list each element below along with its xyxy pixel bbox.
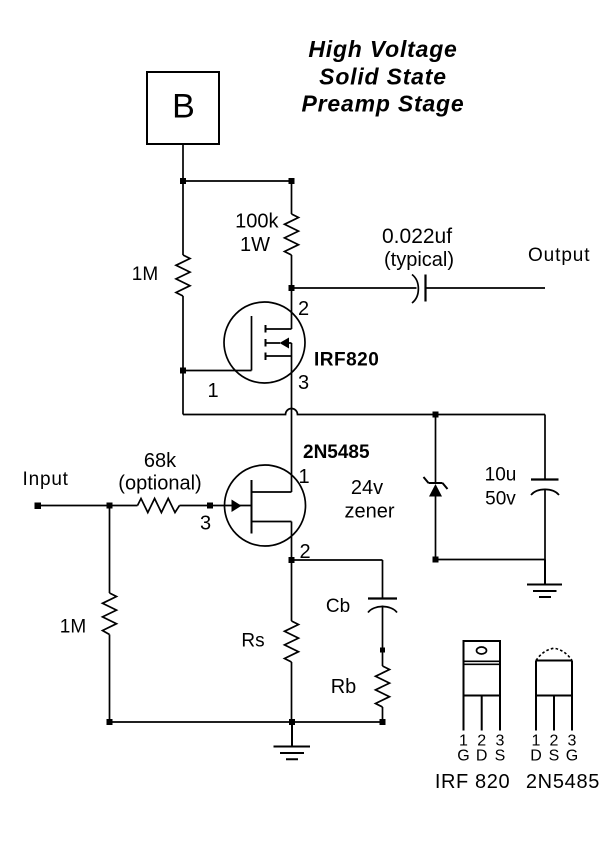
wire top rail horizontal	[183, 180, 292, 182]
wire bias rail with hop over source line	[183, 409, 545, 415]
wire 2N5485 source internal	[252, 522, 292, 561]
wire top rail down to 1M	[182, 181, 184, 255]
svg-text:Solid State: Solid State	[319, 63, 447, 89]
svg-text:1W: 1W	[240, 234, 270, 256]
resistor Rs	[285, 621, 299, 662]
svg-text:3: 3	[298, 372, 309, 394]
svg-text:B: B	[172, 88, 195, 126]
wire IRF820 source down to JFET drain	[291, 343, 293, 492]
wire input junction down to 1M	[109, 506, 111, 594]
node input terminal	[35, 503, 42, 510]
wire 10u cap top lead	[544, 415, 546, 480]
resistor 1M (upper left)	[176, 255, 190, 296]
svg-text:1: 1	[298, 466, 309, 488]
svg-text:Input: Input	[23, 469, 69, 490]
node ground rail dot left	[107, 719, 113, 725]
wire zener bottom to cap bottom	[436, 559, 546, 561]
svg-text:D: D	[476, 748, 488, 765]
svg-text:High Voltage: High Voltage	[308, 36, 457, 62]
wire 1M bottom down to gate node and bias rail	[182, 296, 184, 415]
wire Rb bottom to ground rail	[382, 707, 384, 722]
package IRF820 mounting hole	[477, 647, 487, 654]
wire cap to output	[426, 287, 545, 289]
capacitor 10u 50v curved plate	[531, 489, 559, 495]
package IRF820 tab double line	[464, 661, 501, 664]
wire 1M bottom to ground rail	[110, 635, 383, 723]
node gate junction dot at 183,370.5	[180, 368, 186, 374]
svg-text:68k: 68k	[144, 450, 177, 472]
package 2N5485 TO-92 body	[536, 661, 572, 696]
svg-text:1: 1	[207, 380, 218, 402]
wire source node to Cb branch	[292, 560, 383, 599]
wire Rs bottom to ground rail	[291, 662, 293, 722]
svg-text:2N5485: 2N5485	[526, 771, 600, 793]
svg-text:Cb: Cb	[326, 596, 350, 617]
svg-text:IRF820: IRF820	[314, 350, 379, 371]
package 2N5485 dome dashed	[536, 648, 572, 660]
wire 100k bottom to drain node	[291, 255, 293, 288]
svg-text:IRF 820: IRF 820	[435, 771, 510, 793]
resistor Rb	[376, 666, 390, 707]
svg-text:2: 2	[298, 298, 309, 320]
capacitor Cb straight plate	[368, 597, 397, 599]
svg-text:1M: 1M	[132, 264, 158, 285]
ground (left)	[274, 722, 311, 759]
node drain junction dot at 291.5,288	[289, 285, 295, 291]
transistor IRF820 channel stub middle	[265, 339, 267, 347]
node ground rail dot right	[380, 719, 386, 725]
svg-text:(typical): (typical)	[384, 249, 454, 271]
wire zener bottom lead	[435, 497, 437, 560]
capacitor Cb curved plate	[368, 607, 397, 613]
node zener bottom junction dot	[433, 557, 439, 563]
capacitor 0.022uf (straight plate)	[424, 275, 426, 302]
node B (supply box)	[147, 72, 219, 144]
wire IRF820 source internal	[266, 355, 292, 357]
transistor 2N5485 channel bar	[251, 480, 253, 534]
resistor 68k (optional)	[138, 499, 180, 513]
wire zener top lead	[435, 415, 437, 483]
diode zener 24v bar	[424, 477, 448, 489]
node junction dot at 291.5,181	[289, 178, 295, 184]
ground (right)	[527, 560, 562, 598]
package IRF820 TO-220 outline	[464, 641, 501, 696]
package 2N5485 legs	[536, 696, 572, 731]
svg-text:10u: 10u	[485, 465, 517, 486]
svg-text:Preamp Stage: Preamp Stage	[302, 90, 465, 116]
node gate junction dot 2N5485	[207, 503, 213, 509]
wire source node down to Rs	[291, 560, 293, 621]
svg-text:Rb: Rb	[331, 676, 357, 698]
svg-text:G: G	[457, 748, 469, 765]
wire IRF820 body lead	[266, 342, 292, 344]
transistor 2N5485 gate arrow	[232, 500, 242, 513]
svg-text:100k: 100k	[235, 211, 279, 233]
transistor Q1 2N5485 jfet circle	[225, 465, 306, 546]
svg-text:1M: 1M	[60, 617, 86, 638]
transistor IRF820 channel stub top	[265, 325, 267, 333]
wire output node to coupling cap	[292, 287, 417, 289]
wire B box to top rail	[182, 144, 184, 181]
node source junction dot 2N5485	[289, 557, 295, 563]
wire top rail down to 100k	[291, 181, 293, 214]
node input junction dot	[107, 503, 113, 509]
diode zener 24v triangle	[429, 484, 442, 497]
svg-text:0.022uf: 0.022uf	[382, 225, 452, 248]
svg-text:D: D	[530, 748, 542, 765]
wire Cb bottom to Rb	[382, 606, 384, 667]
svg-text:24v: 24v	[351, 477, 383, 499]
wire 10u cap bottom lead	[544, 489, 546, 560]
node small dot between Cb and Rb	[380, 648, 385, 653]
transistor IRF820 body arrow	[280, 338, 290, 349]
svg-text:Rs: Rs	[241, 631, 264, 652]
node junction dot at 183,181	[180, 178, 186, 184]
wire IRF820 gate lead	[183, 370, 252, 372]
package IRF820 legs	[464, 696, 501, 731]
capacitor 10u 50v straight plate	[531, 478, 559, 480]
svg-text:Output: Output	[528, 245, 590, 266]
wire input to junction	[41, 505, 138, 507]
transistor IRF820 channel stub bottom	[265, 353, 267, 361]
node ground rail dot center	[289, 719, 295, 725]
wire 68k to gate	[180, 505, 211, 507]
wire 2N5485 gate lead	[210, 505, 252, 507]
svg-text:S: S	[549, 748, 560, 765]
transistor IRF820 gate bar	[251, 316, 253, 371]
wire 2N5485 drain internal	[252, 491, 292, 493]
node zener top junction dot	[433, 412, 439, 418]
wire IRF820 drain internal	[266, 288, 292, 329]
resistor 100k 1W	[285, 214, 299, 255]
svg-text:50v: 50v	[485, 489, 516, 510]
svg-text:zener: zener	[344, 501, 394, 523]
svg-text:(optional): (optional)	[118, 473, 201, 495]
svg-text:2N5485: 2N5485	[303, 442, 370, 463]
svg-text:G: G	[566, 748, 578, 765]
transistor Q2 IRF820 mosfet circle	[224, 302, 305, 383]
svg-text:S: S	[495, 748, 506, 765]
resistor 1M (input)	[103, 593, 117, 635]
capacitor 0.022uf (curved plate)	[412, 275, 418, 304]
svg-text:3: 3	[200, 513, 211, 535]
